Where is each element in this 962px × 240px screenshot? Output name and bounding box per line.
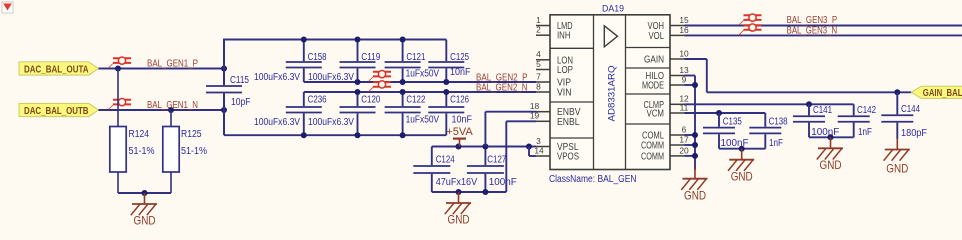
svg-text:DAC_BAL_OUTB: DAC_BAL_OUTB bbox=[24, 105, 89, 117]
junction top rail bbox=[301, 37, 307, 43]
designator DA19 bbox=[602, 4, 624, 15]
resistor R124 bbox=[110, 69, 155, 194]
ground under C124 C127 bbox=[445, 192, 471, 227]
junction on BAL_GEN1_P at R124 bbox=[115, 66, 121, 72]
port DAC_BAL_OUTB bbox=[19, 103, 99, 116]
svg-text:51-1%: 51-1% bbox=[181, 146, 207, 157]
wire BAL_GEN2_P rail bbox=[304, 81, 536, 83]
junction BAL_GEN2_N rail bbox=[400, 89, 406, 95]
junction C135 C138 gnd bbox=[739, 146, 745, 152]
designator C120 bbox=[361, 94, 380, 105]
capacitor C141 bbox=[793, 104, 839, 138]
wire BAL_GEN1_N bbox=[99, 109, 225, 111]
svg-text:VPOS: VPOS bbox=[557, 152, 579, 163]
class name label bbox=[549, 174, 637, 185]
capacitor C121 bbox=[385, 40, 421, 83]
resistor R125 bbox=[163, 110, 207, 193]
junction on BAL_GEN1_N at R125 bbox=[168, 107, 174, 113]
capacitor C126 bbox=[428, 92, 464, 135]
capacitor C119 bbox=[340, 40, 376, 83]
svg-text:C236: C236 bbox=[308, 94, 327, 105]
svg-text:5: 5 bbox=[536, 59, 541, 69]
junction CLMP at C141 bbox=[806, 101, 812, 107]
svg-text:+5VA: +5VA bbox=[446, 126, 473, 138]
svg-text:DA19: DA19 bbox=[602, 4, 624, 15]
wire CLMP net bbox=[685, 103, 854, 105]
svg-text:1nF: 1nF bbox=[769, 138, 783, 149]
svg-text:C127: C127 bbox=[487, 155, 506, 166]
svg-text:47uFx16V: 47uFx16V bbox=[436, 177, 478, 188]
junction bottom rail bbox=[355, 132, 361, 138]
ground IC commons bbox=[681, 168, 707, 203]
junction COMM 17 bbox=[692, 142, 698, 148]
net label BAL_GEN1_P bbox=[147, 57, 198, 69]
pin 19 ENBL bbox=[530, 111, 580, 128]
svg-text:ENBL: ENBL bbox=[557, 117, 580, 128]
wire HILO MODE to ground bbox=[685, 76, 696, 171]
wire VPOS branch bbox=[529, 147, 536, 157]
wire ENBL to ground bbox=[506, 121, 536, 192]
capacitor C144 bbox=[881, 92, 927, 139]
divider right below VOL bbox=[626, 47, 671, 49]
svg-text:C138: C138 bbox=[769, 117, 788, 128]
svg-text:GAIN: GAIN bbox=[644, 55, 664, 66]
svg-text:LOP: LOP bbox=[557, 65, 573, 76]
divider left below VIN bbox=[550, 101, 594, 103]
pin 6 COML bbox=[642, 124, 687, 141]
svg-text:100uFx6.3V: 100uFx6.3V bbox=[308, 117, 354, 128]
svg-text:C135: C135 bbox=[723, 117, 742, 128]
svg-text:C124: C124 bbox=[436, 155, 455, 166]
svg-text:1uFx50V: 1uFx50V bbox=[406, 115, 440, 126]
junction BAL_GEN2_P rail bbox=[355, 79, 361, 85]
differential pair marker BAL_GEN3_P bbox=[739, 14, 762, 25]
junction top rail bbox=[355, 37, 361, 43]
junction +5VA at C127 bbox=[482, 144, 488, 150]
svg-text:15: 15 bbox=[679, 15, 689, 25]
pin 14 VPOS bbox=[534, 145, 579, 162]
pin 7 VIP bbox=[536, 71, 571, 88]
net label BAL_GEN2_N bbox=[476, 81, 528, 93]
port DAC_BAL_OUTA bbox=[19, 62, 99, 75]
junction resistor common bbox=[142, 190, 148, 196]
wire BAL_GEN3_P bbox=[685, 25, 962, 27]
svg-text:COMM: COMM bbox=[641, 141, 664, 152]
wire C135 C138 ground bbox=[719, 148, 765, 150]
svg-text:180pF: 180pF bbox=[901, 128, 927, 139]
svg-text:14: 14 bbox=[534, 145, 544, 155]
port GAIN_BAL bbox=[911, 86, 962, 99]
pin 13 HILO bbox=[646, 65, 689, 82]
svg-text:C115: C115 bbox=[230, 75, 249, 86]
svg-text:C125: C125 bbox=[450, 52, 469, 63]
svg-text:C158: C158 bbox=[308, 52, 327, 63]
no-ERC marker bbox=[2, 2, 13, 13]
svg-text:INH: INH bbox=[557, 31, 571, 42]
svg-text:100nF: 100nF bbox=[489, 177, 517, 188]
svg-text:ClassName: BAL_GEN: ClassName: BAL_GEN bbox=[549, 174, 637, 185]
svg-text:1nF: 1nF bbox=[858, 127, 872, 138]
junction +5VA at pin14 branch bbox=[526, 144, 532, 150]
svg-text:GAIN_BAL_G: GAIN_BAL_G bbox=[923, 87, 962, 99]
ground under C144 bbox=[884, 139, 910, 176]
power port +5VA bbox=[446, 126, 473, 147]
svg-text:2: 2 bbox=[536, 25, 541, 35]
differential pair marker BAL_GEN1_N bbox=[109, 98, 132, 109]
capacitor C158 bbox=[286, 40, 322, 83]
svg-text:20: 20 bbox=[679, 145, 689, 155]
pin 1 LMD bbox=[536, 15, 573, 32]
wire COMM17 to ground bbox=[685, 144, 696, 146]
pin 2 INH bbox=[536, 25, 571, 42]
value C121 bbox=[406, 68, 440, 79]
svg-text:3: 3 bbox=[536, 136, 541, 146]
wire BAL_GEN2_N rail bbox=[304, 91, 536, 93]
designator C119 bbox=[361, 52, 380, 63]
svg-text:C142: C142 bbox=[857, 105, 876, 116]
junction gnd wire at C127 bbox=[482, 189, 488, 195]
pin 12 CLMP bbox=[644, 94, 689, 111]
svg-text:4: 4 bbox=[536, 49, 541, 59]
capacitor C124 bbox=[413, 147, 477, 193]
svg-text:10nF: 10nF bbox=[450, 67, 471, 78]
wire VCM net bbox=[685, 112, 766, 114]
junction COMM 20 bbox=[692, 153, 698, 159]
differential pair marker BAL_GEN2_N bbox=[369, 81, 392, 92]
pin 5 LOP bbox=[536, 59, 573, 76]
svg-text:AD8331ARQ: AD8331ARQ bbox=[607, 65, 617, 121]
ground under C135 C138 bbox=[728, 149, 754, 184]
capacitor C142 bbox=[838, 104, 876, 138]
svg-text:7: 7 bbox=[536, 71, 541, 81]
svg-text:C122: C122 bbox=[406, 94, 425, 105]
wire riser x224 bottom bbox=[223, 93, 225, 135]
svg-text:10pF: 10pF bbox=[231, 97, 251, 108]
designator C125 bbox=[450, 52, 469, 63]
wire C141 C142 ground bbox=[809, 136, 854, 138]
amplifier triangle symbol bbox=[604, 26, 617, 47]
wire +5VA rail bbox=[432, 146, 536, 148]
wire riser x224 top bbox=[223, 39, 225, 86]
ground under resistors bbox=[131, 193, 157, 228]
wire top rail bbox=[224, 39, 446, 41]
svg-text:GND: GND bbox=[731, 169, 753, 183]
wire BAL_GEN1_P bbox=[99, 68, 225, 70]
ground under C141 C142 bbox=[817, 137, 843, 172]
svg-text:19: 19 bbox=[530, 111, 540, 121]
svg-text:10nF: 10nF bbox=[452, 114, 473, 125]
value C125 bbox=[450, 67, 471, 78]
junction BAL_GEN2_N rail bbox=[355, 89, 361, 95]
junction GAIN at C144 bbox=[894, 89, 900, 95]
svg-text:100uFx6.3V: 100uFx6.3V bbox=[254, 117, 300, 128]
junction BAL_GEN2_N rail bbox=[443, 89, 449, 95]
svg-text:COMM: COMM bbox=[641, 151, 664, 162]
svg-text:C120: C120 bbox=[361, 94, 380, 105]
net label BAL_GEN3_P bbox=[787, 14, 838, 26]
designator C121 bbox=[406, 52, 425, 63]
value C126 bbox=[452, 114, 473, 125]
designator C126 bbox=[450, 94, 469, 105]
value C119 bbox=[308, 72, 354, 83]
svg-text:10: 10 bbox=[679, 48, 689, 58]
op-amp DA19 AD8331ARQ box bbox=[550, 15, 670, 170]
wire COMM20 to ground bbox=[685, 155, 696, 157]
pin 18 ENBV bbox=[530, 101, 581, 118]
wire bottom rail bbox=[224, 134, 446, 136]
pin 15 VOH bbox=[648, 15, 689, 32]
svg-text:1uFx50V: 1uFx50V bbox=[406, 68, 440, 79]
net label BAL_GEN3_N bbox=[787, 24, 838, 36]
svg-text:BAL_GEN1_P: BAL_GEN1_P bbox=[147, 57, 198, 69]
pin 8 VIN bbox=[536, 81, 572, 98]
value C120 bbox=[308, 117, 354, 128]
svg-text:MODE: MODE bbox=[642, 81, 664, 92]
svg-text:GND: GND bbox=[886, 162, 908, 176]
svg-text:6: 6 bbox=[682, 124, 687, 134]
junction on BAL_GEN1_P at C115 bbox=[221, 66, 227, 72]
svg-text:VOL: VOL bbox=[649, 31, 665, 42]
svg-text:R125: R125 bbox=[181, 129, 202, 140]
junction MODE bbox=[692, 82, 698, 88]
designator C236 bbox=[308, 94, 327, 105]
svg-text:18: 18 bbox=[530, 101, 540, 111]
svg-text:BAL_GEN3_N: BAL_GEN3_N bbox=[787, 24, 838, 36]
wire COML to ground bbox=[685, 134, 696, 136]
net label BAL_GEN2_P bbox=[476, 71, 528, 83]
divider left below INH bbox=[550, 47, 594, 49]
svg-text:C121: C121 bbox=[406, 52, 425, 63]
svg-text:C144: C144 bbox=[901, 104, 920, 115]
junction C141 C142 gnd bbox=[828, 134, 834, 140]
value C122 bbox=[406, 115, 440, 126]
svg-text:VCM: VCM bbox=[647, 109, 665, 120]
svg-text:C119: C119 bbox=[361, 52, 380, 63]
svg-text:BAL_GEN1_N: BAL_GEN1_N bbox=[147, 99, 198, 111]
junction on BAL_GEN1_N at C115 bbox=[221, 107, 227, 113]
capacitor C115 bbox=[206, 75, 251, 108]
capacitor C127 bbox=[467, 147, 517, 193]
part number AD8331ARQ bbox=[607, 65, 617, 121]
svg-text:DAC_BAL_OUTA: DAC_BAL_OUTA bbox=[24, 63, 89, 75]
pin 20 COMM bbox=[641, 145, 689, 162]
divider right below MODE bbox=[626, 93, 671, 95]
pin 10 GAIN bbox=[644, 48, 689, 65]
designator C122 bbox=[406, 94, 425, 105]
svg-text:GND: GND bbox=[134, 214, 156, 228]
junction COML bbox=[692, 132, 698, 138]
svg-text:GND: GND bbox=[448, 213, 470, 227]
divider left below ENBL bbox=[550, 137, 594, 139]
svg-text:BAL_GEN2_N: BAL_GEN2_N bbox=[476, 81, 528, 93]
pin 3 VPSL bbox=[536, 136, 579, 153]
junction bottom rail bbox=[301, 132, 307, 138]
wire BAL_GEN3_N bbox=[685, 34, 962, 36]
junction BAL_GEN2_P rail bbox=[400, 79, 406, 85]
svg-text:C126: C126 bbox=[450, 94, 469, 105]
value C236 bbox=[254, 117, 300, 128]
divider right below GAIN bbox=[626, 67, 671, 69]
designator C158 bbox=[308, 52, 327, 63]
wire MODE to ground bbox=[685, 84, 696, 86]
wire resistor commons bbox=[118, 192, 171, 194]
svg-text:1: 1 bbox=[536, 15, 541, 25]
value C158 bbox=[254, 72, 300, 83]
svg-text:51-1%: 51-1% bbox=[129, 146, 155, 157]
net label BAL_GEN1_N bbox=[147, 99, 198, 111]
pin 16 VOL bbox=[649, 25, 689, 42]
wire decoupling ground bbox=[432, 191, 507, 193]
svg-text:100uFx6.3V: 100uFx6.3V bbox=[254, 72, 300, 83]
junction +5VA at stub bbox=[456, 144, 462, 150]
capacitor C120 bbox=[340, 92, 376, 135]
svg-text:C141: C141 bbox=[813, 105, 832, 116]
junction top rail bbox=[400, 37, 406, 43]
differential pair marker BAL_GEN2_P bbox=[369, 70, 392, 81]
capacitor C125 bbox=[428, 40, 464, 83]
junction bottom rail bbox=[400, 132, 406, 138]
svg-text:VIN: VIN bbox=[557, 88, 572, 99]
divider right below VCM bbox=[626, 123, 671, 125]
pin 9 MODE bbox=[642, 74, 687, 91]
capacitor C122 bbox=[385, 92, 421, 135]
differential pair marker BAL_GEN1_P bbox=[109, 57, 132, 68]
wire ENBV to +5VA bbox=[485, 112, 536, 147]
junction BAL_GEN2_P rail bbox=[443, 79, 449, 85]
svg-text:GND: GND bbox=[820, 158, 842, 172]
pin 4 LON bbox=[536, 49, 573, 66]
capacitor C135 bbox=[703, 113, 749, 149]
capacitor C138 bbox=[749, 113, 788, 149]
pin 17 COMM bbox=[641, 134, 689, 151]
svg-text:100uFx6.3V: 100uFx6.3V bbox=[308, 72, 354, 83]
junction gnd wire at stub bbox=[456, 189, 462, 195]
svg-text:GND: GND bbox=[684, 188, 706, 202]
svg-text:8: 8 bbox=[536, 81, 541, 91]
pin 11 VCM bbox=[647, 102, 689, 119]
differential pair marker BAL_GEN3_N bbox=[739, 24, 762, 35]
wire GAIN net bbox=[685, 59, 912, 92]
svg-text:R124: R124 bbox=[129, 129, 150, 140]
junction VCM at C135 bbox=[716, 110, 722, 116]
capacitor C236 bbox=[286, 92, 322, 135]
svg-text:13: 13 bbox=[679, 65, 689, 75]
